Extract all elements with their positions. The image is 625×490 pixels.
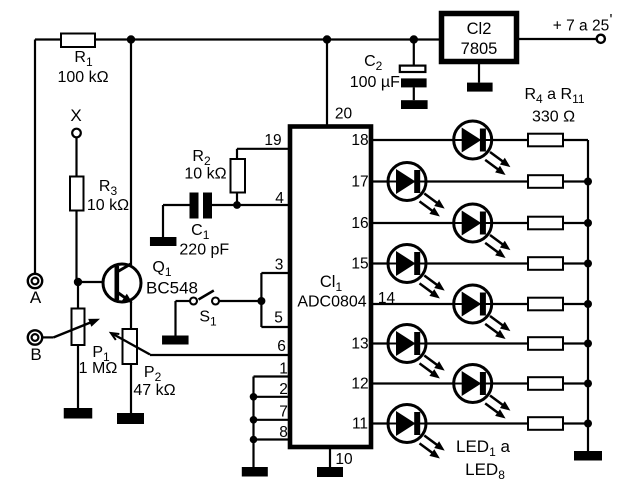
svg-text:100 µF: 100 µF bbox=[350, 74, 400, 91]
svg-text:17: 17 bbox=[351, 174, 368, 191]
svg-text:R1: R1 bbox=[74, 49, 93, 69]
svg-text:11: 11 bbox=[352, 416, 368, 433]
svg-text:20: 20 bbox=[335, 106, 353, 123]
svg-text:330 Ω: 330 Ω bbox=[532, 109, 575, 126]
svg-text:15: 15 bbox=[351, 256, 368, 273]
svg-text:47 kΩ: 47 kΩ bbox=[133, 382, 175, 399]
svg-text:12: 12 bbox=[351, 376, 368, 393]
svg-text:10: 10 bbox=[335, 451, 353, 468]
svg-text:1 MΩ: 1 MΩ bbox=[79, 360, 118, 377]
svg-text:4: 4 bbox=[275, 190, 284, 207]
svg-text:LED8: LED8 bbox=[465, 460, 505, 482]
svg-text:A: A bbox=[30, 288, 42, 307]
svg-text:ADC0804: ADC0804 bbox=[297, 294, 366, 311]
svg-text:14: 14 bbox=[378, 290, 396, 307]
svg-text:16: 16 bbox=[351, 215, 368, 232]
svg-text:8: 8 bbox=[279, 424, 288, 441]
svg-text:Cl2: Cl2 bbox=[467, 20, 492, 38]
svg-text:1: 1 bbox=[279, 361, 288, 378]
svg-text:10 kΩ: 10 kΩ bbox=[87, 197, 129, 214]
svg-text:220 pF: 220 pF bbox=[179, 242, 229, 259]
svg-text:Q1: Q1 bbox=[152, 259, 171, 279]
svg-text:5: 5 bbox=[274, 310, 283, 327]
svg-text:S1: S1 bbox=[199, 309, 217, 329]
svg-text:+ 7 a 25: + 7 a 25 bbox=[553, 18, 609, 35]
svg-text:B: B bbox=[30, 345, 41, 364]
svg-text:7: 7 bbox=[279, 404, 288, 421]
svg-text:2: 2 bbox=[279, 381, 288, 398]
svg-text:18: 18 bbox=[351, 132, 368, 149]
svg-text:BC548: BC548 bbox=[146, 279, 198, 298]
svg-text:19: 19 bbox=[264, 132, 281, 149]
svg-text:': ' bbox=[610, 12, 613, 29]
svg-text:100 kΩ: 100 kΩ bbox=[57, 69, 108, 86]
svg-text:C2: C2 bbox=[364, 53, 383, 73]
svg-text:R3: R3 bbox=[99, 178, 118, 198]
svg-text:13: 13 bbox=[351, 336, 368, 353]
svg-text:R4 a R11: R4 a R11 bbox=[524, 86, 584, 106]
svg-text:10 kΩ: 10 kΩ bbox=[184, 166, 226, 183]
svg-text:6: 6 bbox=[277, 338, 286, 355]
svg-text:P2: P2 bbox=[144, 364, 162, 384]
svg-text:C1: C1 bbox=[191, 222, 210, 242]
svg-text:LED1 a: LED1 a bbox=[456, 437, 510, 459]
svg-text:X: X bbox=[70, 106, 81, 125]
svg-text:7805: 7805 bbox=[461, 40, 498, 58]
svg-text:3: 3 bbox=[275, 257, 284, 274]
